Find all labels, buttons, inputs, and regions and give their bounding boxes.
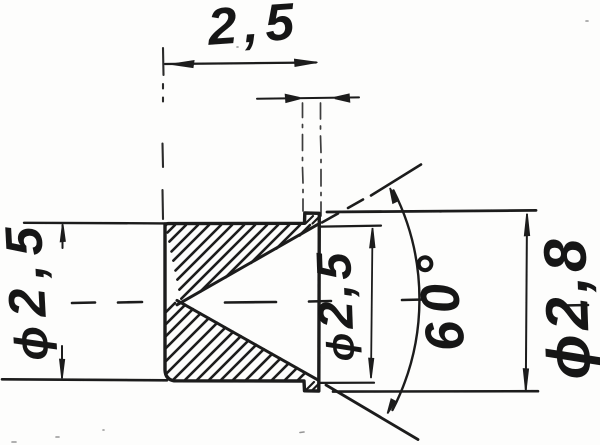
left diameter dimension: bottom extension line (2, 379, 167, 380)
dimension text 2,5 (top length) (205, 0, 303, 57)
left diameter dimension line stub+arrow bottom (61, 346, 63, 378)
60 degree cone angle: lower ray (326, 385, 418, 440)
dimension line for 2,5 length (165, 63, 316, 65)
60 degree cone angle: upper ray (extension of bore edge) (322, 165, 421, 223)
arrowhead (left, pointing right) of flange width dimension (286, 95, 300, 101)
middle diameter dimension: bottom extension line (320, 382, 374, 384)
extension line (dashed) at left face for 2,5 (163, 48, 164, 219)
svg-text:ϕ2,8: ϕ2,8 (531, 234, 600, 381)
60 degree dimension arc (393, 191, 420, 411)
left diameter dimension: top extension line (24, 222, 166, 225)
left diameter dimension line stub+arrow top (62, 225, 64, 248)
hatching upper section (168, 225, 311, 299)
arrowhead left of 2,5 dimension (171, 61, 195, 68)
right diameter arrow top (525, 214, 530, 236)
part body outline with flange (165, 213, 319, 391)
svg-text:ϕ2,5: ϕ2,5 (0, 216, 60, 362)
right diameter dimension: top extension line (327, 210, 536, 212)
right diameter dimension line (526, 215, 527, 390)
arrowhead (right, pointing left) of flange width dimension (335, 95, 349, 101)
middle diameter text ϕ2,5 (307, 248, 365, 363)
conical bore upper edge (177, 224, 319, 305)
middle diameter dimension: top extension line (321, 226, 381, 227)
arc arrowhead top (390, 188, 398, 203)
svg-text:2,5: 2,5 (205, 0, 303, 57)
right diameter arrow bottom (524, 369, 529, 390)
hatching upper flange step (306, 216, 319, 224)
extension line (dash-dot) at flange right for width dimension (320, 103, 323, 216)
middle diameter arrow top (370, 228, 375, 248)
dimension line for flange width (small) (257, 97, 359, 98)
centre line (dash-dot axis) (72, 300, 588, 306)
right diameter dimension: bottom extension line (333, 390, 538, 393)
arrowhead right of 2,5 dimension (295, 59, 318, 66)
conical bore lower edge (177, 300, 319, 380)
extension line (dash-dot) at flange left for width dimension (302, 103, 305, 211)
middle diameter dimension line (371, 229, 373, 378)
right diameter text ϕ2,8 (531, 234, 600, 381)
svg-text:60°: 60° (404, 243, 476, 355)
arc arrowhead bottom (388, 399, 396, 413)
svg-text:ϕ2,5: ϕ2,5 (307, 248, 365, 363)
hatching lower flange step (306, 382, 319, 391)
hatching lower section (166, 303, 305, 381)
middle diameter arrow bottom (369, 359, 373, 378)
60 degree text (404, 243, 476, 355)
left diameter text ϕ2,5 (0, 216, 60, 362)
